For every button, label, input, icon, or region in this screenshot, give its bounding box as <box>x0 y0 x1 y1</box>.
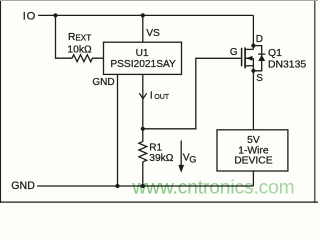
svg-text:10kΩ: 10kΩ <box>67 45 92 56</box>
svg-text:DN3135: DN3135 <box>268 60 306 71</box>
svg-text:Q1: Q1 <box>268 48 282 59</box>
svg-text:U1: U1 <box>136 48 149 59</box>
svg-text:R: R <box>68 32 75 43</box>
svg-text:DEVICE: DEVICE <box>234 156 272 167</box>
svg-text:G: G <box>230 47 238 58</box>
svg-text:VS: VS <box>146 28 160 39</box>
svg-text:D: D <box>256 34 263 45</box>
svg-text:I: I <box>150 91 153 102</box>
svg-text:GND: GND <box>92 77 114 88</box>
svg-text:R1: R1 <box>149 143 162 154</box>
svg-text:OUT: OUT <box>154 94 170 101</box>
svg-text:G: G <box>189 155 196 165</box>
svg-text:www.cntronics.com: www.cntronics.com <box>131 178 294 199</box>
svg-text:EXT: EXT <box>75 33 91 42</box>
svg-text:39kΩ: 39kΩ <box>149 153 173 164</box>
svg-text:GND: GND <box>11 180 35 192</box>
svg-text:PSSI2021SAY: PSSI2021SAY <box>110 59 176 70</box>
svg-text:IO: IO <box>23 10 36 22</box>
svg-text:S: S <box>256 73 263 84</box>
